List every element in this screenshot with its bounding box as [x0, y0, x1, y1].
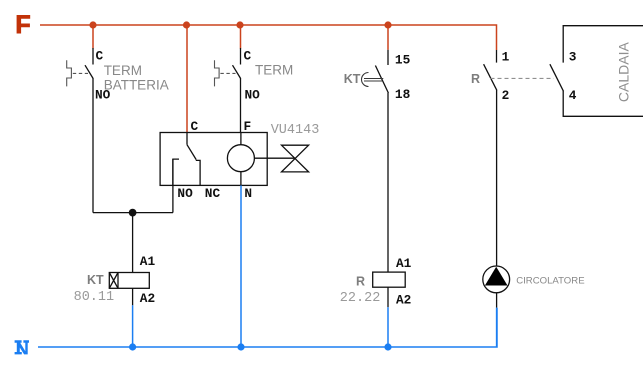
wire motor to valve [254, 157, 295, 159]
wire branch 2 (orange drop to box C) [186, 25, 188, 133]
svg-text:C: C [244, 49, 252, 64]
linkage dashes R to caldaia contact [491, 77, 554, 79]
junction dot F-4 [384, 21, 391, 28]
svg-text:CIRCOLATORE: CIRCOLATORE [516, 275, 584, 286]
svg-text:15: 15 [395, 52, 411, 67]
wire pump to N (black part) [496, 292, 498, 307]
wire pump to N (blue part) [496, 308, 498, 347]
svg-text:R: R [356, 275, 365, 289]
relay contact R 1-2 [484, 50, 497, 266]
timer coil KT 80.11 [109, 273, 149, 289]
wire R coil to N (blue part) [387, 307, 389, 347]
svg-text:A2: A2 [396, 292, 411, 307]
svg-text:BATTERIA: BATTERIA [104, 78, 169, 93]
svg-text:F: F [15, 11, 30, 39]
wire branch 4 (orange drop to KT contact) [387, 25, 389, 50]
svg-text:C: C [191, 119, 199, 134]
wire R coil to N (black part) [387, 287, 389, 307]
wire KT coil to N (black part) [132, 288, 134, 305]
svg-text:2: 2 [502, 88, 510, 103]
svg-text:NO: NO [177, 186, 193, 201]
svg-text:80.11: 80.11 [74, 290, 115, 305]
thermostat switch TERM [233, 48, 241, 133]
wire KT coil to N (blue part) [132, 305, 134, 347]
circulator pump [483, 266, 510, 293]
svg-text:A2: A2 [140, 291, 155, 306]
svg-text:22.22: 22.22 [340, 291, 381, 306]
wire branch 3 (orange drop to TERM) [240, 25, 242, 49]
thermostat actuator (TERM BATTERIA) [67, 60, 72, 86]
svg-text:18: 18 [395, 87, 410, 102]
wire box N to N bus (blue) [240, 185, 242, 347]
label N (neutral) [15, 340, 29, 354]
wire F to motor [240, 133, 242, 145]
relay box VU4143 [160, 133, 267, 186]
caldaia contact 3-4 [550, 26, 643, 117]
svg-text:KT: KT [344, 72, 361, 86]
timed contact KT 15-18 [375, 50, 388, 272]
valve symbol (hourglass) [282, 145, 309, 172]
svg-text:TERM: TERM [104, 63, 142, 78]
svg-text:F: F [244, 119, 252, 134]
svg-text:CALDAIA: CALDAIA [616, 42, 632, 103]
junction dot N-2 [237, 343, 244, 350]
wire branch 1 (orange drop to TERM BATTERIA) [92, 25, 94, 49]
junction dot KT coil feed [129, 209, 137, 217]
svg-text:NC: NC [205, 186, 221, 201]
svg-text:R: R [471, 72, 480, 86]
wire N bus (blue) [38, 308, 497, 347]
relay coil R 22.22 [373, 272, 406, 287]
linkage dashes (TERM) [220, 72, 235, 74]
wire motor to box bottom [240, 172, 242, 186]
wire junction run (to KT coil) [93, 212, 173, 214]
junction dot F-2 [183, 21, 190, 28]
svg-text:A1: A1 [140, 254, 156, 269]
thermostat switch TERM BATTERIA [85, 48, 93, 213]
svg-text:N: N [244, 186, 252, 201]
box inner switch C-NC [187, 133, 200, 186]
svg-text:VU4143: VU4143 [271, 123, 320, 138]
junction dot N-1 [129, 343, 136, 350]
thermostat actuator (TERM) [215, 60, 220, 86]
box NO contact [173, 159, 179, 185]
svg-text:4: 4 [569, 88, 577, 103]
svg-text:3: 3 [569, 49, 577, 64]
svg-text:KT: KT [87, 273, 104, 287]
pump triangle [485, 267, 508, 286]
junction dot F-3 [236, 21, 243, 28]
svg-text:C: C [96, 49, 104, 64]
svg-text:1: 1 [502, 49, 510, 64]
linkage dashes (TERM BATTERIA) [73, 72, 88, 74]
wire box NO down-left to junction [172, 159, 174, 213]
svg-text:TERM: TERM [255, 63, 293, 78]
motor circle (valve motor) [227, 145, 254, 172]
junction dot N-3 [384, 343, 391, 350]
timer linkage double line [364, 78, 383, 80]
junction dot F-1 [89, 21, 96, 28]
wire F bus (orange) [40, 25, 497, 50]
wire down to KT coil A1 [132, 213, 134, 273]
svg-text:A1: A1 [396, 256, 412, 271]
timer linkage arc [362, 73, 369, 87]
svg-text:NO: NO [245, 88, 261, 103]
